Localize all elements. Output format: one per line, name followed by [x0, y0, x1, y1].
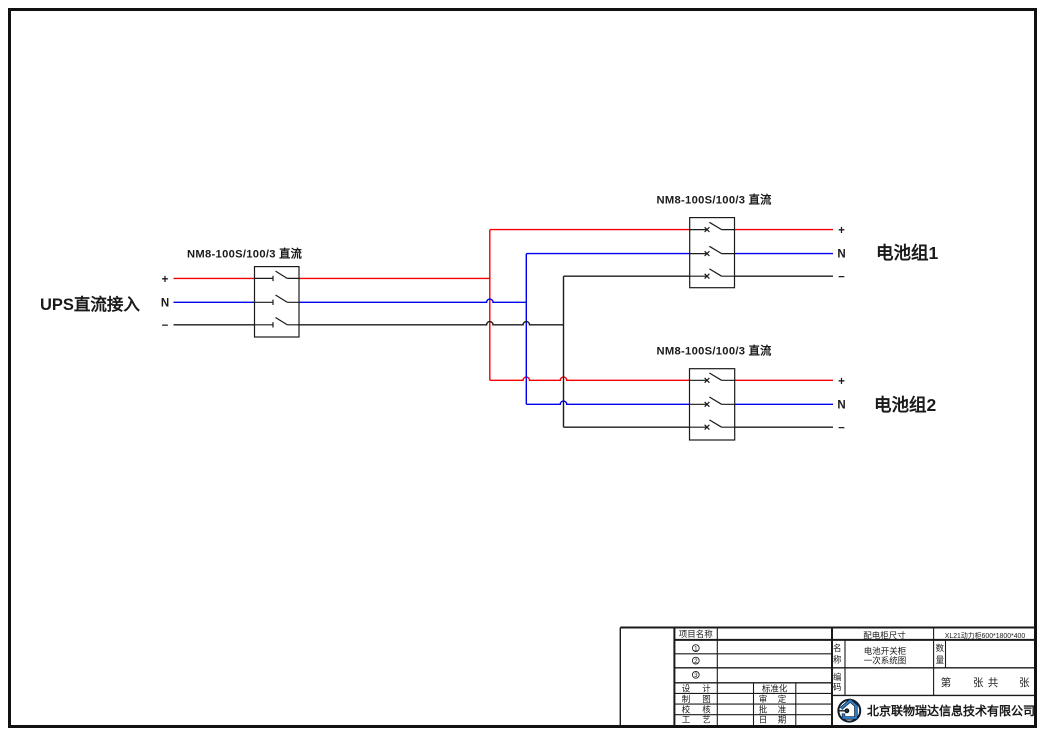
svg-text:+: +	[162, 274, 169, 286]
breaker QF3 (battery group 2, 3-pole with x contacts)	[690, 369, 735, 440]
wire blue upper branch to breaker QF2	[526, 253, 689, 255]
svg-text:电池组1: 电池组1	[876, 243, 938, 263]
svg-text:配电柜尺寸: 配电柜尺寸	[863, 631, 906, 641]
wire red lower branch output	[735, 379, 833, 381]
wire red main breaker to branch node	[299, 277, 490, 279]
svg-text:定: 定	[778, 694, 787, 704]
svg-text:NM8-100S/100/3 直流: NM8-100S/100/3 直流	[657, 344, 773, 358]
svg-text:项目名称: 项目名称	[679, 629, 714, 639]
title block texts	[679, 629, 714, 639]
svg-text:批: 批	[759, 705, 768, 715]
svg-text:−: −	[162, 320, 169, 332]
svg-text:艺: 艺	[702, 715, 711, 725]
svg-text:UPS直流接入: UPS直流接入	[40, 294, 140, 314]
breaker QF1 (main 3-pole switch)	[255, 267, 300, 337]
svg-text:图: 图	[702, 694, 711, 704]
svg-text:日: 日	[759, 715, 768, 725]
svg-text:3: 3	[694, 672, 698, 679]
svg-text:码: 码	[833, 682, 842, 692]
svg-text:设: 设	[682, 683, 691, 693]
svg-text:称: 称	[833, 655, 842, 665]
svg-text:−: −	[838, 422, 845, 434]
wire red upper branch output	[735, 229, 834, 231]
svg-text:张: 张	[1019, 677, 1030, 689]
svg-text:名: 名	[833, 643, 842, 653]
svg-text:NM8-100S/100/3 直流: NM8-100S/100/3 直流	[187, 246, 303, 260]
svg-text:标准化: 标准化	[762, 683, 788, 693]
wire black vertical branch bus	[563, 276, 565, 427]
wire blue lower branch output	[735, 403, 833, 405]
wire red lower branch to breaker QF3 (hops over blue and black buses)	[490, 377, 690, 380]
svg-text:编: 编	[833, 672, 842, 682]
title block grid lines	[620, 628, 1035, 726]
wire blue vertical branch bus	[525, 254, 527, 405]
wire black lower branch to breaker QF3	[564, 426, 690, 428]
wire black main breaker to branch node (hops over red and blue buses)	[299, 322, 564, 325]
svg-text:期: 期	[778, 715, 787, 725]
svg-text:准: 准	[778, 705, 787, 715]
svg-text:计: 计	[702, 683, 711, 693]
company logo	[838, 700, 860, 722]
svg-text:制: 制	[682, 694, 691, 704]
svg-text:第: 第	[941, 676, 952, 689]
wire black upper branch output	[735, 275, 834, 277]
svg-text:+: +	[838, 225, 845, 237]
svg-text:量: 量	[936, 655, 945, 665]
svg-text:一次系统图: 一次系统图	[864, 655, 907, 665]
wire blue lower branch to breaker QF3 (hops over black bus)	[526, 401, 689, 404]
svg-text:张: 张	[973, 677, 984, 689]
svg-text:NM8-100S/100/3 直流: NM8-100S/100/3 直流	[657, 192, 773, 206]
wire black lower branch output	[735, 426, 833, 428]
svg-text:N: N	[837, 399, 845, 411]
svg-text:N: N	[837, 249, 845, 261]
svg-text:数: 数	[936, 643, 945, 653]
field number 1	[692, 645, 699, 679]
svg-text:XL21动力柜600*1800*400: XL21动力柜600*1800*400	[945, 631, 1026, 640]
svg-text:1: 1	[694, 645, 698, 652]
wire black upper branch to breaker QF2	[564, 275, 690, 277]
wire red main input	[174, 277, 255, 279]
svg-text:N: N	[161, 297, 169, 309]
breaker QF2 (battery group 1, 3-pole with x contacts)	[690, 218, 735, 288]
svg-text:工: 工	[682, 715, 691, 725]
wire blue main breaker to branch node (hops over red bus)	[299, 299, 526, 302]
svg-text:校: 校	[682, 705, 691, 715]
svg-text:+: +	[838, 376, 845, 388]
svg-text:2: 2	[694, 658, 698, 665]
svg-text:电池组2: 电池组2	[874, 395, 936, 415]
svg-text:审: 审	[759, 694, 768, 704]
svg-text:共: 共	[988, 677, 999, 689]
wire blue main input	[174, 301, 255, 303]
wire blue upper branch output	[735, 253, 834, 255]
wire red upper branch to breaker QF2	[490, 229, 690, 231]
svg-text:核: 核	[702, 705, 711, 715]
wire red vertical branch bus	[489, 230, 491, 381]
svg-text:−: −	[838, 271, 845, 283]
svg-text:北京联物瑞达信息技术有限公司: 北京联物瑞达信息技术有限公司	[867, 703, 1035, 718]
wire black main input	[174, 324, 255, 326]
